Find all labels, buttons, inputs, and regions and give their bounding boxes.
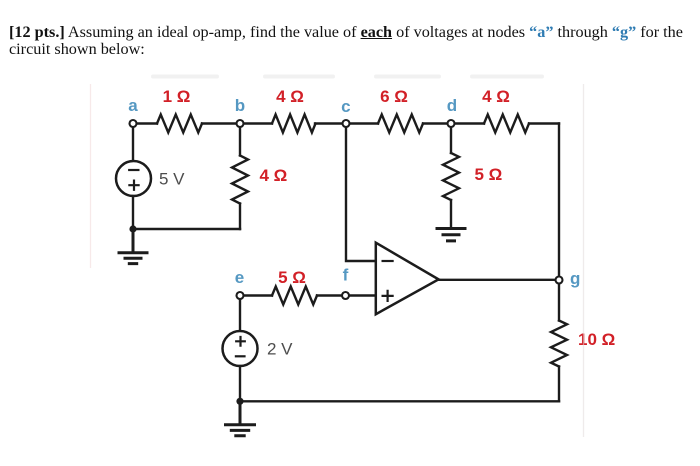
wire bottom-left horizontal junction to 4-ohm leg: [133, 228, 240, 230]
wire bottom rail: [240, 400, 559, 402]
node b: [237, 120, 244, 127]
faint whiteout smudge above 1-ohm: [151, 75, 219, 79]
ground G3: [226, 401, 255, 436]
node f: [342, 292, 349, 299]
wire node a down to 5V source: [132, 128, 134, 161]
svg-text:4 Ω: 4 Ω: [260, 166, 288, 185]
svg-text:c: c: [341, 97, 350, 116]
V1 plus sign: [129, 181, 138, 190]
voltage source V2 2V: [223, 331, 258, 366]
faint whiteout smudge above 4-ohm: [263, 75, 335, 79]
node c: [343, 120, 350, 127]
junction dot B: [236, 398, 243, 405]
svg-text:a: a: [128, 96, 138, 115]
wire node e down to 2V source: [239, 300, 241, 331]
wire top rail a to 1-ohm: [138, 122, 158, 124]
op-amp U1: [376, 243, 439, 315]
svg-text:5 Ω: 5 Ω: [278, 268, 306, 287]
node g: [556, 277, 563, 284]
svg-text:4 Ω: 4 Ω: [276, 87, 304, 106]
faint screenshot border line left: [90, 84, 92, 268]
ground G1: [119, 229, 147, 264]
resistor R6 5-ohm (below d): [443, 153, 459, 200]
resistor R1 1-ohm (a-b): [157, 115, 202, 133]
wire 5-ohm to ground: [450, 200, 452, 229]
V1 minus sign: [129, 169, 138, 171]
wire node c to 6-ohm: [350, 122, 378, 124]
faint whiteout smudge above right 4-ohm: [470, 75, 544, 79]
resistor R2 4-ohm (b-c): [272, 115, 316, 133]
voltage source V1 5V: [116, 161, 151, 196]
wire right vertical down to node g: [558, 124, 560, 277]
wire 4-ohm to right corner: [529, 122, 559, 124]
wire op-amp output to node g: [439, 279, 556, 281]
svg-text:d: d: [447, 96, 457, 115]
ground G2: [437, 229, 465, 241]
V2 minus sign: [236, 355, 245, 357]
wire node d to 4-ohm feedback: [455, 122, 484, 124]
node a: [130, 120, 137, 127]
wire 1-ohm to node b: [202, 122, 236, 124]
svg-text:5 V: 5 V: [159, 170, 185, 189]
svg-text:4 Ω: 4 Ω: [482, 87, 510, 106]
faint screenshot border line right: [583, 84, 585, 437]
wire 10-ohm up to node g: [558, 284, 560, 321]
wire 6-ohm to node d: [423, 122, 447, 124]
resistor R4 4-ohm (d-g feedback): [484, 115, 529, 133]
svg-text:g: g: [570, 269, 580, 288]
svg-text:2 V: 2 V: [267, 340, 293, 359]
svg-text:6 Ω: 6 Ω: [380, 87, 408, 106]
svg-text:e: e: [235, 268, 244, 287]
svg-text:b: b: [235, 96, 245, 115]
wire node b to 4-ohm: [244, 122, 272, 124]
wire 5-ohm to node f: [317, 294, 341, 296]
resistor R3 6-ohm (c-d): [378, 115, 423, 133]
resistor R5 4-ohm (below b): [232, 156, 248, 204]
wire node f to op-amp non-inverting input: [350, 294, 375, 296]
wire node c down to op-amp inverting input: [346, 128, 375, 261]
node d: [448, 120, 455, 127]
resistor R8 10-ohm (below g): [551, 321, 567, 367]
faint whiteout smudge above 6-ohm: [374, 75, 441, 79]
wire 5V source to bottom junction: [132, 196, 134, 229]
op-amp minus input sign: [383, 260, 393, 262]
svg-text:5 Ω: 5 Ω: [475, 165, 503, 184]
V2 plus sign: [236, 337, 245, 346]
node e: [237, 292, 244, 299]
op-amp plus input sign: [383, 291, 393, 301]
svg-text:f: f: [343, 266, 349, 285]
wire 4-ohm leg up from junction: [239, 204, 241, 230]
junction dot A: [129, 225, 136, 232]
wire 4-ohm to node c: [315, 122, 342, 124]
wire node d down to 5-ohm: [450, 128, 452, 153]
wire node b down to 4-ohm: [239, 128, 241, 156]
resistor R7 5-ohm (e-f): [272, 287, 317, 305]
wire 2V source to bottom junction: [239, 366, 241, 401]
svg-text:1 Ω: 1 Ω: [163, 87, 191, 106]
wire node e to 5-ohm: [244, 294, 272, 296]
wire bottom rail up to 10-ohm: [558, 367, 560, 402]
